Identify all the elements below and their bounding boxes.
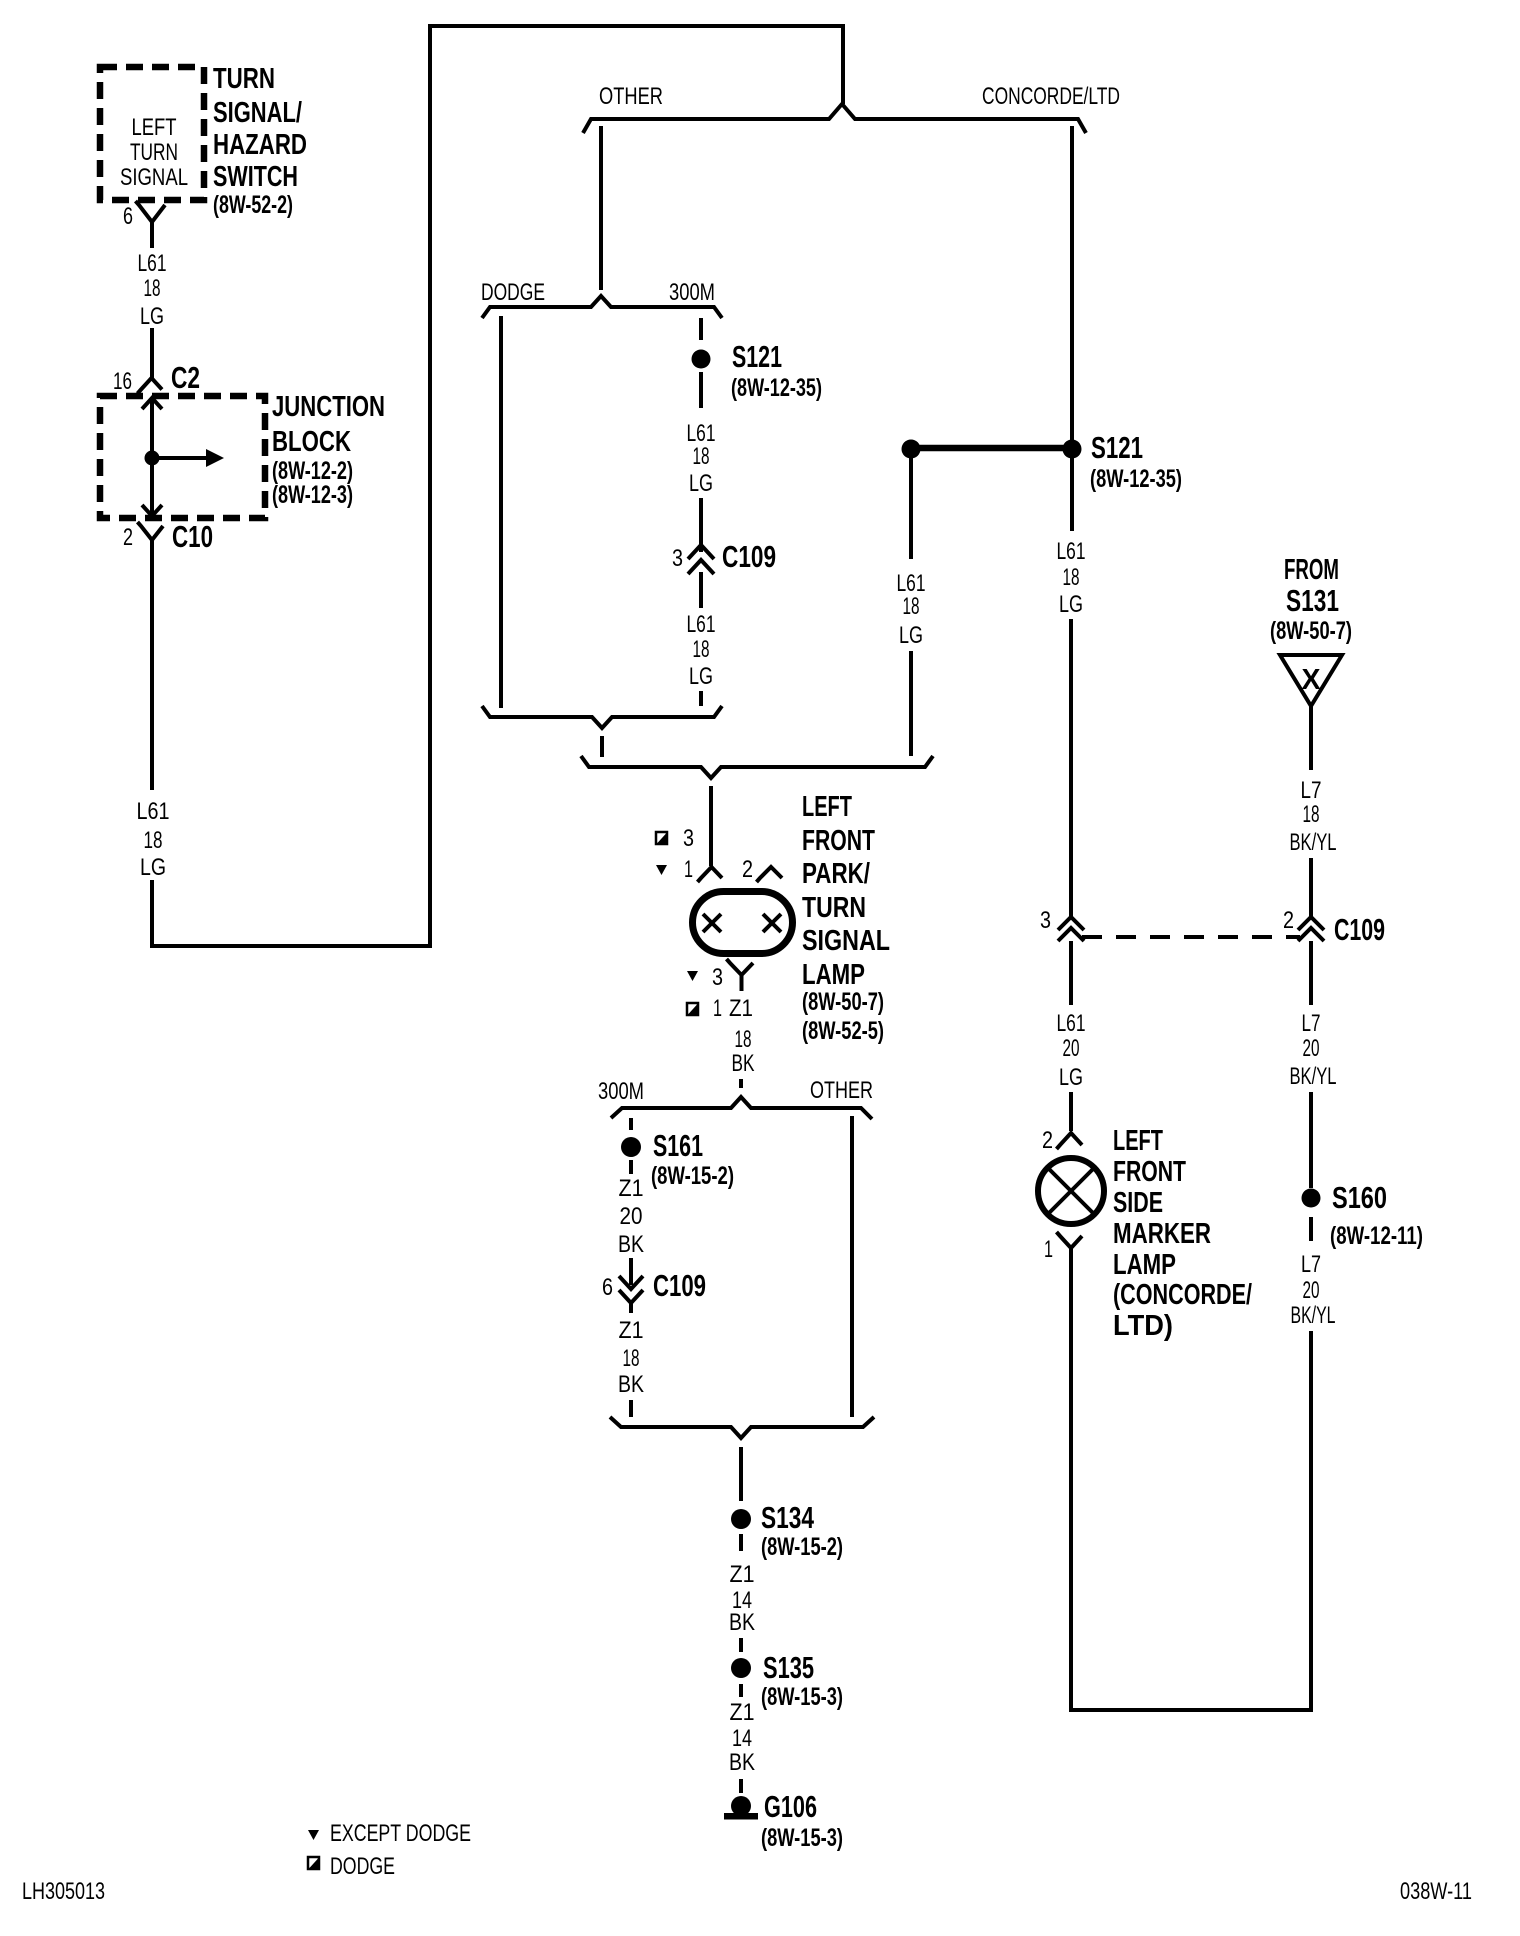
svg-text:LG: LG [899, 622, 923, 649]
svg-text:L61: L61 [1057, 538, 1086, 565]
svg-text:2: 2 [1042, 1127, 1053, 1154]
footnote mark triangle + pin 3 (except dodge) [687, 964, 723, 991]
splice S160 [1302, 1189, 1321, 1208]
svg-text:C109: C109 [653, 1268, 706, 1303]
svg-text:L7: L7 [1301, 1251, 1321, 1278]
svg-text:SWITCH: SWITCH [213, 161, 298, 193]
wire from left S121 dot down [909, 458, 913, 559]
svg-text:LG: LG [689, 663, 713, 690]
splice S135 [731, 1658, 751, 1678]
svg-text:FROM: FROM [1284, 554, 1339, 586]
svg-text:Z1: Z1 [619, 1317, 644, 1344]
svg-text:JUNCTION: JUNCTION [272, 391, 385, 423]
svg-text:L7: L7 [1301, 777, 1322, 804]
label: LEFT FRONT SIDE MARKER LAMP (CONCORDE/LTD) [1113, 1125, 1252, 1342]
svg-text:18: 18 [693, 636, 710, 663]
svg-text:BK: BK [732, 1050, 755, 1077]
svg-text:LH305013: LH305013 [22, 1878, 105, 1905]
svg-text:18: 18 [735, 1026, 752, 1053]
footnote mark triangle + pin 1 (except dodge) [656, 856, 693, 883]
svg-text:TURN: TURN [130, 139, 178, 166]
wire dash above split [739, 1079, 743, 1088]
svg-text:(8W-50-7): (8W-50-7) [802, 988, 884, 1016]
svg-text:S121: S121 [1091, 430, 1143, 465]
wire to C2 [150, 328, 154, 378]
split: OTHER / CONCORDE-LTD [583, 104, 1086, 133]
svg-text:18: 18 [1063, 564, 1080, 591]
connector pin 6 (Y) [136, 201, 166, 248]
svg-text:(8W-15-2): (8W-15-2) [651, 1162, 734, 1190]
footnote: except dodge [308, 1820, 471, 1847]
svg-text:LEFT: LEFT [802, 791, 852, 823]
svg-text:TURN: TURN [213, 63, 275, 95]
svg-text:1: 1 [1044, 1236, 1053, 1263]
wire dash to ground [739, 1779, 743, 1793]
svg-text:LG: LG [1059, 591, 1083, 618]
wire label Z1 14 BK [729, 1561, 755, 1636]
wire merge to S134 [739, 1447, 743, 1501]
splice S161 [621, 1137, 641, 1157]
wire dash to merge [699, 691, 703, 706]
lamp: left front park/turn signal lamp (stadium with two bulbs) [693, 892, 793, 954]
svg-text:6: 6 [123, 203, 133, 230]
svg-text:L61: L61 [138, 250, 167, 277]
svg-text:(8W-15-2): (8W-15-2) [761, 1533, 843, 1561]
lamp: left front side marker (circle with X) [1038, 1158, 1104, 1224]
wire DODGE branch [499, 316, 503, 708]
label: FROM S131 (8W-50-7) [1270, 554, 1352, 645]
wire dash 300M branch [629, 1118, 633, 1130]
svg-text:18: 18 [903, 593, 920, 620]
wire to C109 [699, 498, 703, 552]
svg-text:BK/YL: BK/YL [1290, 829, 1337, 856]
svg-text:SIGNAL: SIGNAL [120, 164, 188, 191]
svg-text:1: 1 [713, 995, 722, 1022]
connector lamp pin 2 (chevron) [757, 867, 783, 882]
wire label Z1 20 BK [618, 1175, 644, 1258]
wire dash below S160 [1309, 1217, 1313, 1241]
svg-text:3: 3 [672, 545, 683, 572]
junction block (dashed box) [100, 396, 265, 518]
svg-text:Z1: Z1 [619, 1175, 644, 1202]
svg-text:TURN: TURN [802, 892, 866, 924]
svg-text:(CONCORDE/: (CONCORDE/ [1113, 1279, 1252, 1311]
wire label L61 18 LG [687, 420, 716, 497]
wire below S121 [699, 372, 703, 408]
svg-text:LEFT: LEFT [132, 114, 177, 141]
svg-text:(8W-12-3): (8W-12-3) [272, 481, 353, 509]
wire label Z1 14 BK [729, 1699, 755, 1776]
svg-text:1: 1 [684, 856, 693, 883]
merge: DODGE+300M [482, 706, 722, 728]
svg-text:18: 18 [693, 443, 710, 470]
wire label L7 20 BK/YL [1291, 1251, 1336, 1329]
svg-text:S160: S160 [1332, 1180, 1387, 1215]
svg-text:(8W-12-35): (8W-12-35) [731, 374, 822, 402]
svg-text:20: 20 [620, 1203, 643, 1230]
svg-text:L61: L61 [687, 611, 716, 638]
svg-text:14: 14 [732, 1725, 752, 1752]
svg-text:DODGE: DODGE [330, 1853, 395, 1880]
wire label L61 18 LG [897, 570, 926, 649]
svg-text:Z1: Z1 [730, 1699, 755, 1726]
wire to C109 pin 2 [1309, 858, 1313, 917]
svg-text:S161: S161 [653, 1128, 703, 1163]
connector marker pin 1 (chevron down) [1057, 1232, 1083, 1248]
svg-text:LG: LG [140, 303, 164, 330]
svg-text:(8W-50-7): (8W-50-7) [1270, 617, 1352, 645]
svg-text:16: 16 [113, 368, 132, 395]
svg-text:C109: C109 [722, 539, 776, 574]
svg-text:(8W-15-3): (8W-15-3) [761, 1683, 843, 1711]
wire Concorde S121 down [1070, 458, 1074, 531]
svg-text:18: 18 [1303, 801, 1320, 828]
svg-text:LAMP: LAMP [802, 959, 865, 991]
svg-text:(8W-12-35): (8W-12-35) [1090, 465, 1182, 493]
svg-text:2: 2 [123, 524, 133, 551]
svg-text:BK: BK [729, 1609, 755, 1636]
svg-text:6: 6 [602, 1274, 613, 1301]
wire dash below S161 [629, 1160, 633, 1174]
svg-text:L7: L7 [1302, 1010, 1321, 1037]
svg-text:CONCORDE/LTD: CONCORDE/LTD [982, 83, 1120, 110]
wire merge to lamp pin 1 [709, 786, 713, 866]
wire L61 from C10 down [150, 558, 154, 790]
svg-text:C2: C2 [171, 360, 200, 395]
footnote: dodge [308, 1853, 395, 1880]
svg-text:Z1: Z1 [729, 995, 753, 1022]
label: JUNCTION BLOCK (8W-12-2)(8W-12-3) [272, 391, 385, 509]
ground G106 [724, 1789, 843, 1852]
wire down to merge right end [909, 651, 913, 756]
junction arrow to right [152, 449, 224, 467]
svg-text:(8W-15-3): (8W-15-3) [761, 1824, 843, 1852]
svg-text:SIDE: SIDE [1113, 1187, 1163, 1219]
svg-text:LAMP: LAMP [1113, 1249, 1176, 1281]
wire L61 18 LG label (switch to C2) [138, 250, 167, 330]
splice S121 (Concorde) with tie bar [902, 430, 1183, 493]
wire label L61 18 LG (lower left) [137, 798, 170, 881]
junction node dot [145, 451, 160, 466]
label: TURN SIGNAL/HAZARD SWITCH (8W-52-2) [213, 63, 307, 219]
svg-text:G106: G106 [764, 1789, 817, 1824]
svg-text:18: 18 [144, 275, 161, 302]
svg-text:SIGNAL/: SIGNAL/ [213, 97, 302, 129]
svg-text:2: 2 [1283, 907, 1294, 934]
splice S134 [731, 1509, 751, 1529]
svg-text:S121: S121 [732, 339, 782, 374]
wire label L61 20 LG [1057, 1010, 1086, 1091]
svg-text:BK: BK [618, 1371, 644, 1398]
connector C109 pin 3 (double chevron up) [688, 545, 714, 608]
svg-text:C109: C109 [1334, 912, 1385, 947]
splice S121 (300M) [692, 350, 711, 369]
wire from triangle [1309, 706, 1313, 770]
svg-text:(8W-52-5): (8W-52-5) [802, 1017, 884, 1045]
svg-text:S135: S135 [763, 1650, 814, 1685]
svg-text:S131: S131 [1286, 583, 1339, 618]
svg-text:LG: LG [1059, 1064, 1083, 1091]
split: DODGE / 300M [482, 296, 722, 318]
merge: 300M+OTHER to ground chain [610, 1417, 874, 1438]
svg-text:18: 18 [623, 1345, 640, 1372]
svg-text:(8W-52-2): (8W-52-2) [213, 191, 293, 219]
dashed tie between C109 halves [1082, 935, 1300, 939]
svg-text:HAZARD: HAZARD [213, 129, 307, 161]
wire dash below S134 [739, 1534, 743, 1551]
wire: left column down, across bottom, up left side, across top, down to split [152, 26, 843, 946]
wire dash below merge [600, 736, 604, 757]
wire to S160 [1309, 1092, 1313, 1188]
connector marker pin 2 (chevron) [1057, 1133, 1083, 1149]
svg-text:L61: L61 [1057, 1010, 1086, 1037]
wire to marker lamp pin 2 [1069, 1092, 1073, 1131]
svg-text:BK/YL: BK/YL [1291, 1302, 1336, 1329]
connector lamp pin 1 (chevron) [698, 867, 723, 882]
wire 300M branch (dash) [699, 318, 703, 340]
svg-text:(8W-12-11): (8W-12-11) [1330, 1222, 1423, 1250]
wire CONCORDE branch down to S121 [1070, 126, 1074, 449]
connector C10 (Y down) [138, 522, 164, 558]
svg-text:038W-11: 038W-11 [1400, 1878, 1472, 1905]
svg-text:LG: LG [140, 854, 166, 881]
label: LEFT FRONT PARK/TURN SIGNAL LAMP [802, 791, 890, 1045]
svg-text:OTHER: OTHER [810, 1077, 873, 1104]
svg-text:PARK/: PARK/ [802, 858, 870, 890]
svg-text:3: 3 [1040, 907, 1051, 934]
connector C109 pin 3 (left, double chevron up) [1058, 917, 1084, 941]
svg-text:Z1: Z1 [730, 1561, 755, 1588]
svg-text:L61: L61 [137, 798, 170, 825]
wire label L7 18 BK/YL [1290, 777, 1337, 856]
connector C109 pin 6 (double chevron down with stem) [619, 1258, 643, 1313]
svg-text:X: X [1302, 664, 1322, 696]
connector lamp pin 3 (Y) [727, 959, 754, 991]
svg-text:300M: 300M [669, 279, 715, 306]
wire dash to S135 [739, 1638, 743, 1652]
wire below C109 left [1069, 941, 1073, 1005]
wire OTHER branch [850, 1116, 854, 1417]
wire below C109 right [1309, 941, 1313, 1005]
svg-text:3: 3 [712, 964, 723, 991]
svg-text:3: 3 [683, 825, 694, 852]
svg-text:18: 18 [144, 827, 163, 854]
off-page connector triangle with X [1280, 655, 1342, 706]
svg-text:LG: LG [689, 470, 713, 497]
svg-text:DODGE: DODGE [481, 279, 545, 306]
svg-text:LTD): LTD) [1113, 1310, 1173, 1342]
wire OTHER branch [599, 126, 603, 290]
svg-text:20: 20 [1303, 1277, 1320, 1304]
svg-text:OTHER: OTHER [599, 83, 663, 110]
svg-text:MARKER: MARKER [1113, 1218, 1211, 1250]
merge: feed to park/turn lamp pin 1 [581, 756, 933, 778]
svg-text:BK/YL: BK/YL [1290, 1063, 1337, 1090]
svg-text:BK: BK [729, 1749, 755, 1776]
wire from marker pin1 down, across, up to S160 branch [1071, 1248, 1311, 1710]
svg-text:20: 20 [1063, 1035, 1080, 1062]
wire dash below S135 [739, 1684, 743, 1697]
footnote mark square + pin 1 + wire Z1 label [687, 995, 755, 1077]
wire dash to merge [629, 1400, 633, 1417]
svg-text:300M: 300M [598, 1078, 644, 1105]
svg-text:EXCEPT DODGE: EXCEPT DODGE [330, 1820, 471, 1847]
svg-text:FRONT: FRONT [1113, 1156, 1186, 1188]
junction block internal wire with arrowheads [142, 398, 162, 516]
svg-text:20: 20 [1303, 1035, 1320, 1062]
svg-text:S134: S134 [761, 1500, 815, 1535]
svg-text:FRONT: FRONT [802, 825, 875, 857]
svg-text:LEFT: LEFT [1113, 1125, 1163, 1157]
wire label Z1 18 BK [618, 1317, 644, 1398]
footnote mark square + pin 3 (dodge) [656, 825, 694, 852]
svg-text:BLOCK: BLOCK [272, 426, 351, 458]
wire label L61 18 LG (concorde) [1057, 538, 1086, 618]
wire label L7 20 BK/YL [1290, 1010, 1337, 1090]
svg-text:C10: C10 [172, 519, 213, 554]
split: 300M / OTHER (below lamp) [611, 1097, 872, 1119]
wire long down to C109 pin 3 [1069, 619, 1073, 917]
wire label L61 18 LG below C109 [687, 611, 716, 690]
switch: turn signal/hazard switch (dashed box, left turn signal) [100, 67, 204, 200]
connector C2 (half chevron) [138, 378, 163, 394]
connector C109 pin 2 (right, double chevron up) [1298, 917, 1324, 941]
svg-text:BK: BK [618, 1231, 644, 1258]
svg-text:2: 2 [742, 856, 753, 883]
svg-text:SIGNAL: SIGNAL [802, 925, 890, 957]
